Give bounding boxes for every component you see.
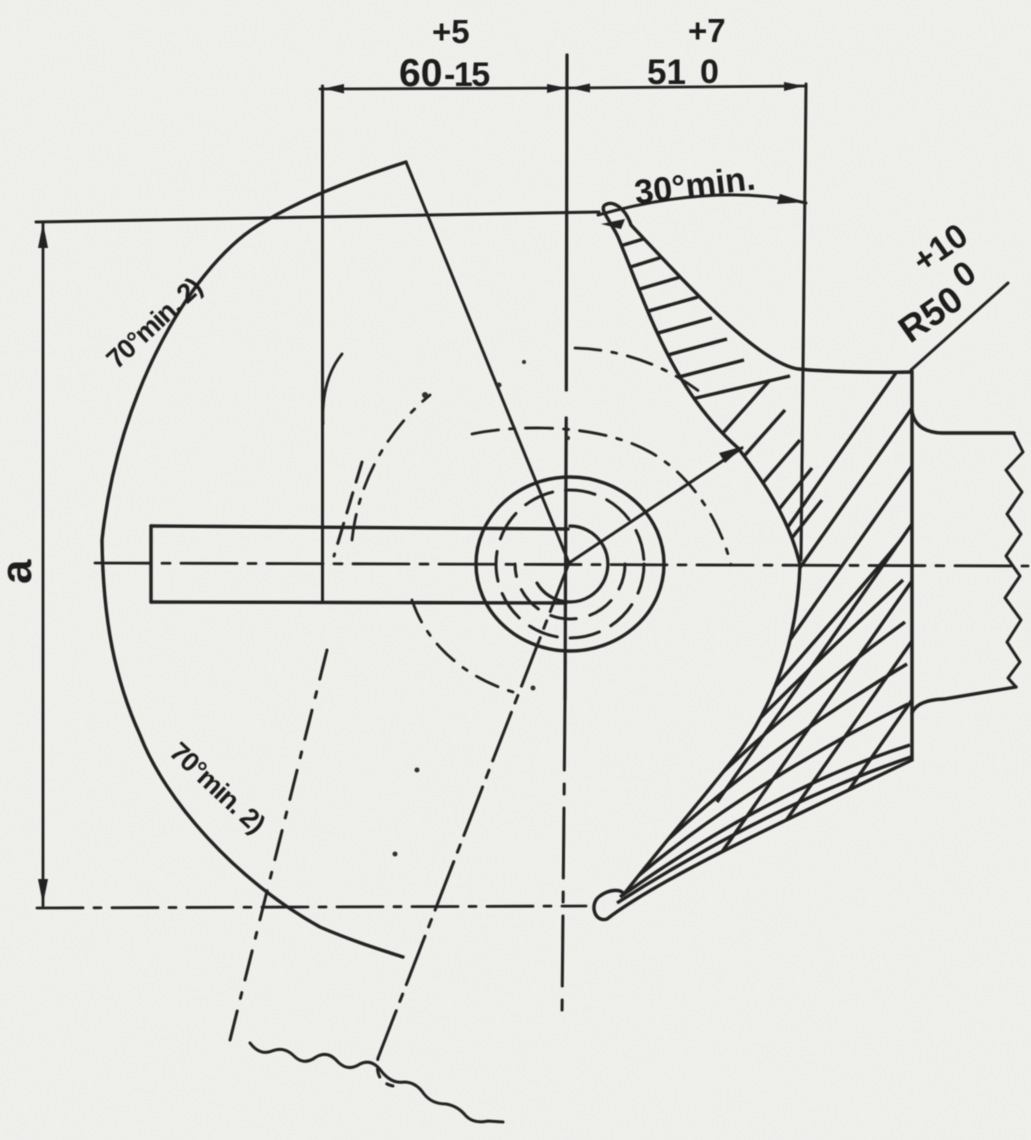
wire wavy break line of rotated bar (250, 1043, 503, 1122)
node ball dashed circle (496, 490, 644, 638)
wire big 70deg envelope arc (102, 162, 406, 957)
wire drawbar left end (149, 526, 152, 602)
node arrow 60 left (324, 84, 344, 94)
wire shank wavy break line (1005, 434, 1023, 687)
wire radius ray to arc top end (406, 162, 569, 563)
wire drawbar top edge (151, 526, 568, 529)
node ball small solid arc (537, 526, 608, 602)
node arrow a top (38, 223, 48, 248)
wire dimension line 51 (568, 86, 806, 88)
node arrow 60 right (547, 84, 567, 93)
node ball outer circle (476, 477, 664, 651)
wire dimension line a (42, 222, 45, 906)
node ball small dashed arc (515, 564, 625, 619)
node shank top edge (912, 411, 1014, 433)
wire extension line right of 51 dim (801, 84, 806, 560)
wire bottom extension dash-dot line (37, 906, 586, 908)
wire drawbar bottom edge (151, 602, 566, 603)
wire vertical centerline (565, 55, 567, 700)
wire top extension line for dim a (36, 212, 599, 222)
node arrow 51 right (784, 82, 804, 91)
node arrow R50 (719, 446, 744, 463)
wire rotated-bar dashed edge upper bit (334, 462, 362, 556)
wire phantom coupling inner dash-dot arc (472, 428, 731, 565)
node hatched bracket outline (594, 203, 912, 919)
wire horizontal centerline (95, 563, 1028, 566)
node arrow a bottom (38, 879, 48, 904)
node arrow 30deg left (601, 219, 625, 229)
wire R50 radius line (569, 448, 742, 563)
wire small hook on extension line (323, 354, 342, 424)
wire R50 leader line (911, 283, 1008, 370)
wire extension line left of 60 dim (321, 86, 324, 601)
wire phantom coupling lower-left dash-dot arc (412, 600, 513, 692)
wire dimension line 60 (320, 88, 570, 89)
wire rotated-bar dash-dot centerline to lower left (377, 563, 569, 1086)
node arrow 30deg right (777, 194, 805, 204)
wire rotated-bar dashed edge lower left (230, 650, 327, 1040)
wire phantom coupling outer dash-dot arc right (575, 348, 700, 392)
wire 30deg dimension arc (598, 195, 806, 215)
node arrow 51 left (570, 84, 590, 93)
node stray scan dots (393, 360, 571, 857)
node shank bottom edge (912, 687, 1016, 713)
wire phantom coupling outer dash-dot arc left (352, 395, 430, 540)
